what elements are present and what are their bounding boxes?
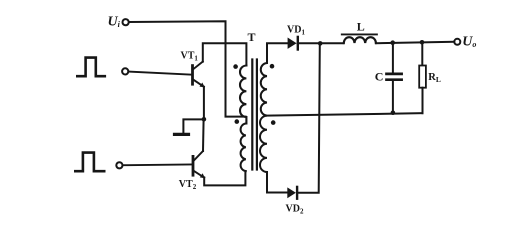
inductor L <box>342 34 377 43</box>
wire VD1 to L <box>298 42 344 44</box>
svg-text:Uo: Uo <box>462 35 476 50</box>
wire VD2 cathode up to rectifier junction <box>297 43 320 192</box>
wire secondary center tap to output return rail <box>266 113 423 115</box>
input terminal 1 <box>122 68 128 74</box>
node C top junction <box>390 40 395 45</box>
wire Ui to primary center tap <box>129 21 246 116</box>
svg-text:VT2: VT2 <box>179 179 197 191</box>
node RL top junction <box>420 40 425 45</box>
svg-text:VD2: VD2 <box>286 204 304 216</box>
node Ui terminal <box>123 19 129 25</box>
pulse input 2 <box>75 153 104 172</box>
svg-text:RL: RL <box>428 72 441 84</box>
transformer T primary winding upper <box>240 66 246 124</box>
polarity dot secondary lower <box>271 120 276 125</box>
transformer T secondary winding <box>260 63 267 172</box>
wire VT2 emitter to primary bottom <box>204 171 245 185</box>
svg-text:C: C <box>375 69 384 83</box>
input terminal 2 <box>116 162 122 168</box>
node rectifier junction <box>318 41 323 46</box>
wire VT1 collector to primary top <box>203 43 247 65</box>
transistor VT1 <box>193 62 205 88</box>
polarity dot primary lower <box>235 119 240 124</box>
svg-text:Ui: Ui <box>108 15 121 30</box>
node junction emitters/ground <box>202 117 207 122</box>
wire L to output <box>376 42 454 43</box>
transformer core <box>252 60 257 170</box>
wire base VT1 <box>129 72 192 75</box>
wire VT1 emitter down <box>203 87 205 120</box>
diode VD1 <box>288 37 298 50</box>
wire secondary top to VD1 <box>267 43 288 63</box>
resistor RL <box>419 42 426 113</box>
transformer T primary winding lower <box>241 124 246 172</box>
pulse input 1 <box>77 58 105 77</box>
polarity dot primary upper <box>233 64 238 69</box>
polarity dot secondary upper <box>270 64 275 69</box>
svg-text:VD1: VD1 <box>287 25 305 37</box>
wire VT2 collector up to junction <box>202 119 205 151</box>
wire base VT2 <box>123 163 192 166</box>
node Uo terminal <box>454 39 460 45</box>
svg-text:L: L <box>357 20 365 34</box>
diode VD2 <box>287 187 297 199</box>
transistor VT2 <box>193 151 205 178</box>
ground <box>175 119 204 134</box>
node C bottom junction <box>391 110 396 115</box>
svg-text:T: T <box>248 30 256 44</box>
capacitor C <box>387 43 402 113</box>
wire secondary bottom to VD2 <box>267 172 287 193</box>
svg-text:VT1: VT1 <box>181 51 199 63</box>
